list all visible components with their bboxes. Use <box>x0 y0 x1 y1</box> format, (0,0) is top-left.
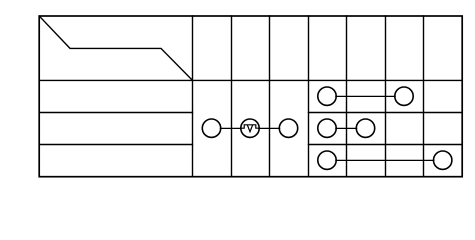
wire D1-D2 <box>336 159 434 161</box>
node circle A1 (trio left) <box>202 119 220 137</box>
node circle B1 (row1 left) <box>318 87 336 105</box>
column line x=346.5 <box>346 16 348 177</box>
node circle D1 (row3 left) <box>318 151 336 169</box>
node circle D2 (row3 right) <box>434 151 452 169</box>
column line x=231.5 <box>231 16 233 177</box>
column line x=192.5 <box>192 16 194 177</box>
node circle A3 (trio right) <box>279 119 297 137</box>
valve glyph inside A2 <box>242 125 259 132</box>
row line y=112 right segment <box>309 112 463 114</box>
row line y=144 left segment <box>39 144 192 146</box>
wire A2-A3 <box>259 127 280 129</box>
column line x=308.5 <box>308 16 310 177</box>
node circle C2 (row2 right) <box>356 119 374 137</box>
row line y=112 left segment <box>39 112 192 114</box>
banner polygon (Z-fold flag in header cell) <box>39 16 192 80</box>
wire A1-A2 <box>220 127 241 129</box>
row line y=144 right segment <box>309 144 463 146</box>
node circle A2 (trio middle, with valve glyph) <box>241 119 259 137</box>
column line x=269.5 <box>269 16 271 177</box>
node circle C1 (row2 left) <box>318 119 336 137</box>
row line y=80 full width <box>39 79 462 81</box>
wire B1-B2 <box>336 95 395 97</box>
outer border frame <box>39 16 462 177</box>
column line x=423.5 <box>423 16 425 177</box>
column line x=385.5 <box>385 16 387 177</box>
node circle B2 (row1 right) <box>395 87 413 105</box>
wire C1-C2 <box>336 127 357 129</box>
